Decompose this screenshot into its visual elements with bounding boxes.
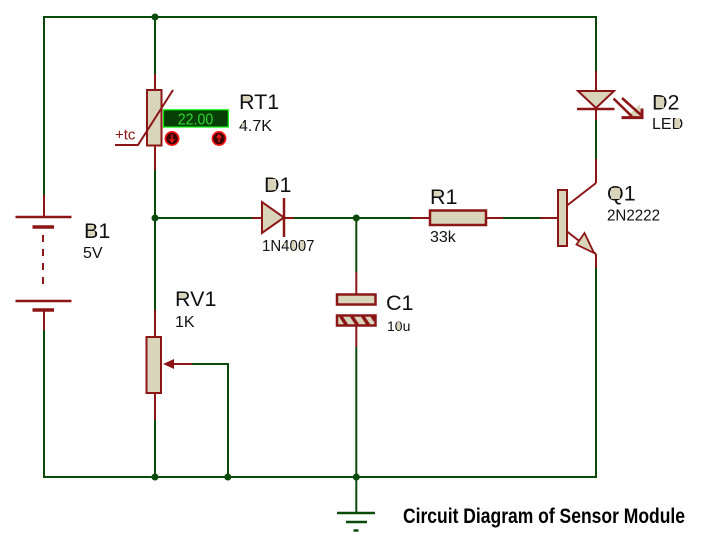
svg-text:RT1: RT1 xyxy=(239,90,279,114)
svg-text:Circuit Diagram of Sensor Modu: Circuit Diagram of Sensor Module xyxy=(403,505,685,528)
svg-text:33k: 33k xyxy=(430,229,457,246)
svg-text:22.00: 22.00 xyxy=(178,112,214,129)
svg-text:1K: 1K xyxy=(175,314,195,331)
svg-text:5V: 5V xyxy=(83,245,103,262)
svg-text:4.7K: 4.7K xyxy=(239,118,272,135)
svg-text:B1: B1 xyxy=(84,219,110,243)
svg-text:RV1: RV1 xyxy=(175,287,216,311)
svg-text:R1: R1 xyxy=(430,185,457,209)
svg-text:2N2222: 2N2222 xyxy=(607,208,660,225)
svg-text:+tc: +tc xyxy=(115,127,136,144)
svg-text:C1: C1 xyxy=(386,291,413,315)
svg-text:1N4007: 1N4007 xyxy=(262,238,315,255)
